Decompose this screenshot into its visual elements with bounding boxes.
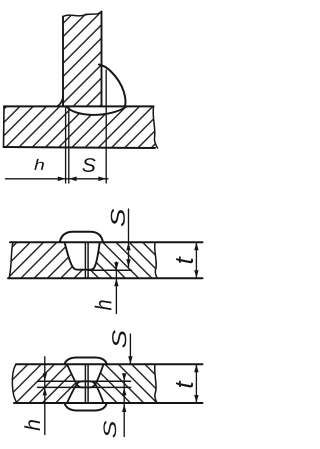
right leader line fig3 xyxy=(123,375,125,437)
joint centerline pair fig2 xyxy=(84,243,86,278)
arrow S right fig1 xyxy=(98,177,106,182)
weld W3 top cup xyxy=(67,364,104,387)
h leader line fig2 xyxy=(115,262,117,314)
plate P3L hatching xyxy=(12,364,75,403)
plate P2 top surface line xyxy=(10,241,203,243)
S top arrow down fig3 xyxy=(128,356,132,364)
joint centerline pair fig3 xyxy=(84,365,86,403)
extension line pair xyxy=(65,106,67,183)
plate P3 bottom surface line xyxy=(14,402,203,404)
mid arrow up fig3 xyxy=(122,388,126,396)
plate P1 hatching xyxy=(4,106,158,148)
weld W3 bottom cap xyxy=(65,403,107,411)
label t fig3 xyxy=(176,380,193,387)
plate P3R hatching xyxy=(96,364,157,403)
root extension line fig2 xyxy=(88,269,131,271)
extension line right xyxy=(105,70,107,183)
label S fig1 xyxy=(82,158,95,172)
plate P3 top surface line xyxy=(16,363,203,365)
h leader line fig3 xyxy=(44,357,46,435)
arrow h fig1 xyxy=(58,177,66,182)
S arrow down fig2 xyxy=(126,259,130,267)
label h fig1 xyxy=(34,159,44,170)
weld W3 top cap xyxy=(65,358,107,365)
plate P3 left break edge xyxy=(12,364,17,403)
label h fig3 xyxy=(24,420,40,431)
arrow S left fig1 xyxy=(69,177,77,182)
plate P3 right break edge xyxy=(155,364,157,403)
bar B1 outline xyxy=(62,17,64,107)
root line lower fig3 xyxy=(38,386,131,388)
root line upper fig3 xyxy=(38,380,131,382)
t arrow up fig3 xyxy=(194,365,198,373)
S top leader fig3 xyxy=(129,334,131,364)
plate P2 right break edge xyxy=(155,242,158,278)
bar B1 hatching xyxy=(63,12,102,107)
plate P2 left break edge xyxy=(9,242,13,278)
plate P2L hatching xyxy=(9,242,85,278)
h arrow up fig2 xyxy=(114,278,118,286)
S leader line fig2 xyxy=(128,209,130,267)
plate P2 bottom surface line xyxy=(8,277,203,279)
dimension line fig1 xyxy=(6,178,109,180)
label S top fig3 xyxy=(112,330,126,347)
plate P1 outline xyxy=(4,105,154,107)
mid arrow down fig3 xyxy=(122,373,126,381)
t arrow down fig2 xyxy=(194,270,198,278)
plate P2R hatching xyxy=(88,242,157,278)
label S bottom fig3 xyxy=(103,421,116,438)
t dimension line fig2 xyxy=(195,242,197,278)
weld W2 groove cup xyxy=(65,242,100,270)
label S fig2 xyxy=(111,209,125,226)
weld W1 penetration arc xyxy=(67,106,127,115)
S arrow up fig2 xyxy=(126,242,130,250)
S bottom arrow up fig3 xyxy=(122,404,126,412)
label t fig2 xyxy=(176,256,193,263)
h arrow down fig2 xyxy=(114,262,118,270)
weld W1 left fillet xyxy=(57,97,63,106)
t arrow down fig3 xyxy=(194,395,198,403)
h arrow up fig3 xyxy=(43,388,47,396)
weld bead W1 xyxy=(99,65,125,107)
t dimension line fig3 xyxy=(195,365,197,403)
h arrow down fig3 xyxy=(43,373,47,381)
t arrow up fig2 xyxy=(194,242,198,250)
weld W2 cap xyxy=(60,232,103,242)
label h fig2 xyxy=(95,300,112,310)
plate P1 right break edge xyxy=(153,106,157,148)
weld W3 bottom cup xyxy=(67,381,104,403)
bar B1 top break line xyxy=(63,12,102,17)
